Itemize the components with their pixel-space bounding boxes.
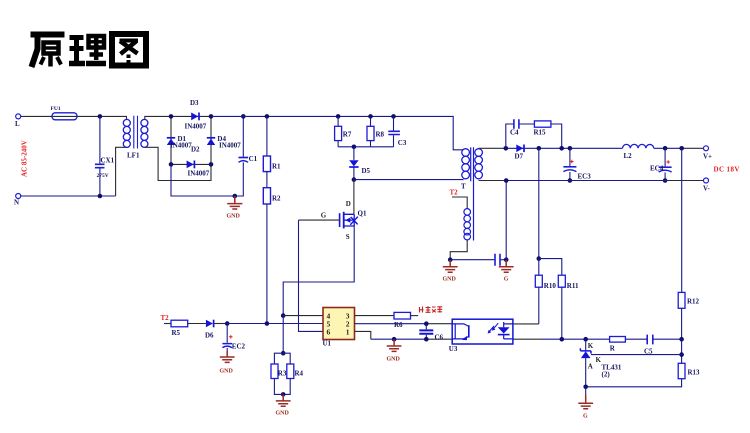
svg-text:6: 6 — [327, 328, 331, 337]
node bridge AC1 — [169, 114, 174, 119]
wire pin4 row — [283, 315, 323, 317]
terminal N — [14, 194, 21, 207]
svg-text:N: N — [14, 199, 19, 207]
svg-text:L: L — [15, 120, 20, 128]
node bridge DC+ — [209, 114, 214, 119]
svg-text:R4: R4 — [295, 370, 304, 378]
capacitor C6 — [419, 324, 443, 342]
ground GND (primary) — [227, 196, 243, 220]
capacitor EC3 — [563, 148, 591, 180]
wire divider mid segment — [681, 339, 683, 363]
svg-text:R11: R11 — [567, 282, 579, 290]
resistor R2 — [263, 188, 281, 204]
wire Q1 gate — [299, 219, 340, 221]
wire gate to U1 pin6 — [299, 220, 324, 331]
wire R3/R4 bottom tie — [274, 379, 290, 395]
wire Q1 drain — [353, 180, 355, 214]
node snubber/D5 — [352, 145, 357, 150]
terminal V- — [703, 178, 711, 193]
svg-text:C4: C4 — [510, 129, 519, 137]
resistor R1 — [263, 116, 281, 171]
svg-text:R8: R8 — [376, 131, 385, 139]
svg-text:R12: R12 — [687, 298, 700, 306]
wire opto anode to R10 — [513, 323, 539, 325]
node EC4 bottom — [663, 178, 668, 183]
wire snubber bottom — [338, 146, 393, 148]
capacitor C4 — [510, 119, 519, 136]
svg-text:V+: V+ — [703, 153, 712, 161]
node EC3 top — [568, 146, 573, 151]
svg-text:L2: L2 — [624, 152, 633, 160]
capacitor Y (primary-secondary) — [450, 254, 506, 266]
svg-text:K: K — [588, 342, 594, 350]
wire bridge DC- to GND rail — [171, 162, 243, 196]
ground GND (EC2) — [220, 351, 235, 375]
svg-text:R7: R7 — [343, 131, 352, 139]
wire to transformer primary bottom — [354, 179, 464, 181]
svg-text:IN4007: IN4007 — [170, 141, 192, 149]
wire U1 pin1 to gnd row — [355, 331, 371, 339]
node R11 join — [560, 337, 565, 342]
resistor R10 — [535, 275, 556, 290]
node REF tap — [679, 352, 684, 357]
diode D5 — [349, 147, 370, 180]
svg-text:D7: D7 — [515, 153, 524, 161]
svg-text:S: S — [346, 233, 350, 241]
wire U1 pin3 to R6 — [355, 315, 395, 317]
wire R13 bottom to TL431 anode — [586, 379, 682, 387]
wire LF1 right top to bridge — [145, 116, 171, 119]
inductor L2 — [623, 144, 654, 160]
bridge right vertical — [210, 116, 212, 164]
wire VCC row to U1 pin5 — [227, 323, 323, 325]
svg-text:C1: C1 — [249, 155, 258, 163]
svg-text:T2: T2 — [450, 189, 459, 197]
transformer T primary winding — [462, 149, 470, 179]
resistor R12 — [678, 292, 699, 308]
node R3/R4 bottom — [281, 392, 286, 397]
diode D4 — [207, 135, 241, 149]
wire N rail — [21, 195, 116, 197]
svg-text:GND: GND — [220, 369, 234, 375]
terminal V+ — [703, 146, 712, 161]
resistor R3 — [271, 353, 290, 378]
wire L to LF1 top (through fuse) — [21, 116, 127, 119]
resistor R7 — [335, 116, 352, 146]
resistor R11 — [558, 275, 579, 290]
bridge bottom rail through D2 — [171, 163, 211, 165]
svg-text:EC2: EC2 — [232, 343, 246, 351]
ground GND (U1) — [387, 339, 402, 362]
svg-text:EC3: EC3 — [578, 173, 592, 181]
svg-text:LF1: LF1 — [127, 152, 140, 160]
svg-text:275V: 275V — [97, 173, 109, 179]
ground GND (sense) — [276, 394, 291, 416]
wire U1 pin2 to opto collector — [355, 323, 427, 325]
node D6/EC2/VCC — [225, 321, 230, 326]
svg-text:CX1: CX1 — [101, 157, 115, 165]
svg-text:G: G — [504, 277, 509, 283]
wire LF1 right bottom to bridge AC2 — [145, 147, 211, 180]
svg-text:GND: GND — [227, 214, 241, 220]
svg-text:GND: GND — [387, 357, 401, 363]
svg-text:Q1: Q1 — [358, 210, 367, 218]
node C1 top — [241, 114, 246, 119]
wire secondary return rail — [479, 180, 507, 182]
svg-text:T2: T2 — [161, 314, 170, 322]
svg-text:R15: R15 — [534, 129, 547, 137]
svg-text:R1: R1 — [272, 163, 281, 171]
node R10/R11 top — [537, 256, 542, 261]
node Y-cap right — [504, 257, 509, 262]
primary top rail — [211, 116, 464, 149]
capacitor CX1 — [95, 116, 115, 196]
node C3 top — [391, 114, 396, 119]
svg-text:U3: U3 — [449, 345, 458, 353]
wire R10 to opto anode — [538, 287, 540, 324]
node D7 cathode — [559, 146, 564, 151]
svg-text:R10: R10 — [544, 282, 557, 290]
capacitor EC4 — [650, 148, 672, 180]
wire sense node down to R3/R4 — [282, 316, 284, 354]
transformer aux winding with phase dot — [450, 197, 470, 260]
title 原理图 (drawn strokes) — [31, 34, 147, 67]
svg-text:C6: C6 — [435, 334, 444, 342]
node Q1 source / pin4 — [281, 313, 286, 318]
transistor Q1 (MOSFET) — [321, 200, 367, 241]
resistor R4 — [287, 364, 304, 379]
capacitor C3 — [388, 116, 407, 147]
node comp/R12 — [679, 337, 684, 342]
capacitor EC2 — [222, 324, 245, 352]
wire secondary top rail — [479, 147, 506, 149]
node GND tap — [233, 194, 238, 199]
resistor R8 — [367, 116, 385, 146]
node D5/drain/primary — [352, 177, 357, 182]
svg-text:IN4007: IN4007 — [185, 123, 207, 131]
node C6 top — [424, 321, 429, 326]
resistor R5 — [164, 320, 206, 337]
common-mode choke LF1 — [123, 116, 148, 160]
node EC4 top — [663, 146, 668, 151]
svg-text:FU1: FU1 — [51, 106, 61, 112]
wire opto cathode rail to TL431/comp — [513, 338, 540, 340]
svg-text:1: 1 — [346, 328, 350, 337]
svg-text:D5: D5 — [362, 167, 371, 175]
ground G (secondary return) — [499, 260, 514, 283]
svg-text:R5: R5 — [172, 329, 181, 337]
ground G (TL431) — [578, 387, 593, 420]
svg-text:GND: GND — [443, 277, 457, 283]
node fuse/CX1 junction — [98, 114, 103, 119]
transformer T core — [471, 147, 474, 240]
node TL431 K — [583, 337, 588, 342]
wire Y-cap node up to secondary return rail — [505, 181, 507, 260]
snubber branch C4+R15 — [506, 124, 562, 148]
node TL431 anode — [583, 385, 588, 390]
resistor R (comp) — [610, 337, 626, 353]
capacitor C5 — [644, 335, 653, 356]
optocoupler U3 — [449, 319, 513, 353]
node EC3 bottom — [568, 178, 573, 183]
svg-text:(2): (2) — [602, 371, 611, 379]
terminal L — [15, 114, 21, 128]
net label (red CJK) — [419, 306, 442, 312]
svg-text:G: G — [583, 414, 588, 420]
node bridge bottom-left — [169, 162, 174, 167]
wire opto feed down (crosses return rail) — [538, 148, 540, 258]
node R3/R4 top — [281, 351, 286, 356]
svg-text:IN4007: IN4007 — [219, 141, 241, 149]
resistor R6 — [394, 312, 418, 329]
capacitor C1 — [239, 116, 258, 163]
svg-text:C3: C3 — [398, 139, 407, 147]
svg-text:R6: R6 — [394, 321, 403, 329]
bridge top rail through D3 — [171, 115, 211, 117]
transformer T secondary winding — [475, 149, 483, 179]
diode D3 — [185, 99, 207, 131]
wire R1-R2 — [266, 172, 268, 188]
svg-text:G: G — [321, 212, 327, 220]
svg-text:D6: D6 — [205, 332, 214, 340]
wire TL431 ref to divider — [591, 354, 682, 356]
svg-text:R13: R13 — [688, 369, 701, 377]
node D7 anode — [504, 146, 509, 151]
svg-text:R3: R3 — [278, 370, 287, 378]
node R8 top — [368, 114, 373, 119]
node V+ feed — [679, 146, 684, 151]
resistor R15 — [534, 121, 551, 137]
svg-text:R2: R2 — [272, 195, 281, 203]
wire R11 to cathode rail — [561, 287, 563, 339]
svg-text:D3: D3 — [190, 99, 199, 107]
svg-text:GND: GND — [276, 411, 290, 417]
svg-text:DC 18V: DC 18V — [714, 166, 740, 174]
svg-text:D2: D2 — [191, 145, 200, 153]
wire R10/R11 top tie — [539, 259, 562, 276]
ground GND (aux) — [443, 260, 458, 283]
wire V+ rail feed down to R12 (crosses return rail) — [681, 148, 683, 292]
diode D6 — [205, 320, 227, 340]
diode D7 — [515, 145, 525, 161]
TL431 U2 — [580, 339, 621, 387]
svg-text:R: R — [610, 345, 616, 353]
node gnd tap — [392, 337, 397, 342]
wire R2 down to VCC row — [266, 204, 268, 324]
node R2 column join — [265, 321, 270, 326]
node R10 feed top — [537, 146, 542, 151]
svg-text:U1: U1 — [323, 339, 332, 347]
svg-text:EC4: EC4 — [650, 165, 664, 173]
svg-text:T: T — [461, 183, 466, 191]
node bridge bottom-right — [209, 162, 214, 167]
bridge left vertical — [170, 116, 172, 164]
fuse FU1 — [51, 106, 78, 120]
diode D2 — [187, 145, 210, 177]
svg-text:IN4007: IN4007 — [188, 169, 210, 177]
resistor R13 — [678, 363, 700, 378]
diode D1 — [167, 135, 192, 149]
svg-text:D: D — [346, 200, 351, 208]
wire LF1 left winding bottom to N rail — [116, 147, 127, 196]
node R1 top — [265, 114, 270, 119]
svg-text:AC 85-240V: AC 85-240V — [21, 140, 29, 177]
svg-text:A: A — [588, 363, 593, 371]
node secondary return / Y-cap — [504, 178, 509, 183]
node C6 bottom — [424, 337, 429, 342]
node aux gnd — [448, 257, 453, 262]
wire R12 to comp node — [681, 308, 683, 339]
node CX1/N rail — [98, 194, 103, 199]
IC U1 (controller) — [323, 308, 355, 348]
node R7 top — [336, 114, 341, 119]
svg-text:V-: V- — [703, 185, 711, 193]
wire Q1 source to sense node — [283, 226, 354, 316]
